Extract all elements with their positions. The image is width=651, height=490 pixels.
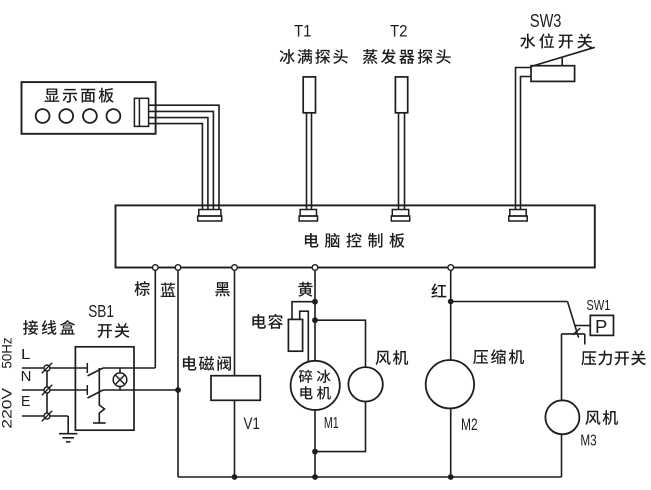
svg-text:N: N (21, 369, 32, 385)
svg-text:E: E (21, 394, 31, 410)
svg-text:50Hz: 50Hz (0, 337, 14, 368)
svg-text:T1: T1 (294, 21, 312, 40)
svg-text:M3: M3 (580, 432, 596, 449)
svg-text:220V: 220V (0, 388, 14, 429)
svg-text:M1: M1 (324, 415, 339, 432)
svg-text:V1: V1 (243, 414, 260, 433)
svg-text:SB1: SB1 (88, 301, 114, 321)
svg-text:P: P (595, 316, 607, 337)
svg-text:SW1: SW1 (586, 297, 610, 314)
svg-text:L: L (21, 347, 31, 363)
svg-text:SW3: SW3 (530, 11, 562, 31)
svg-text:M2: M2 (461, 415, 478, 434)
svg-text:T2: T2 (390, 21, 408, 40)
